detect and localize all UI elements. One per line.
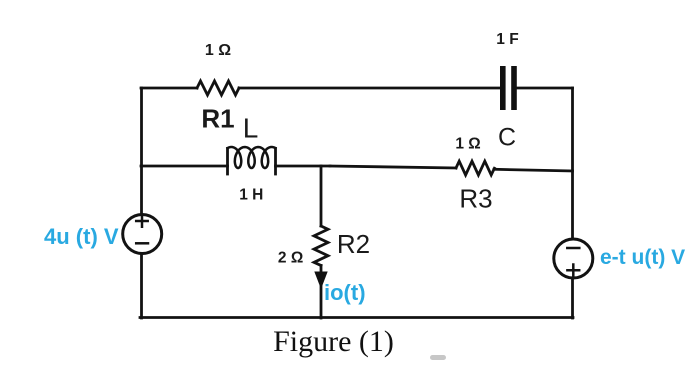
capacitor C1 plates: [500, 66, 517, 110]
svg-text:C: C: [498, 124, 516, 152]
svg-text:1 F: 1 F: [496, 31, 518, 48]
svg-text:io(t): io(t): [324, 280, 366, 305]
resistor R2: [314, 226, 328, 266]
wire middle vertical branch (node to R2): [320, 166, 323, 226]
wire left vertical lower: [140, 254, 143, 319]
svg-text:e-t u(t) V: e-t u(t) V: [600, 246, 685, 269]
wire middle horizontal sloped (branch to R3): [330, 166, 456, 168]
inductor L left tick: [226, 149, 229, 175]
svg-text:1 Ω: 1 Ω: [205, 42, 231, 59]
wire middle vertical lower (R2 to bottom rail): [320, 266, 323, 319]
inductor L right tick: [274, 149, 277, 175]
svg-text:4u (t) V: 4u (t) V: [44, 224, 119, 249]
inductor L coil: [228, 147, 276, 168]
svg-text:1 H: 1 H: [239, 187, 263, 204]
wire bottom rail: [140, 316, 573, 319]
svg-text:1 Ω: 1 Ω: [455, 136, 480, 153]
svg-text:R2: R2: [337, 229, 370, 259]
wire right vertical lower: [571, 278, 574, 318]
svg-text:2 Ω: 2 Ω: [278, 250, 303, 267]
V2 minus sign: [567, 247, 579, 250]
voltage source V1 4u(t): [123, 215, 162, 254]
svg-text:L: L: [243, 113, 259, 144]
wire left vertical upper: [140, 88, 143, 215]
resistor R3: [456, 161, 494, 175]
svg-text:R3: R3: [459, 184, 492, 214]
voltage source V2 e-t u(t): [554, 239, 593, 278]
current arrow io(t): [314, 272, 327, 290]
svg-text:Figure (1): Figure (1): [273, 325, 394, 358]
wire top (R1 to capacitor): [239, 87, 500, 90]
wire top-left horizontal (left corner to R1): [141, 87, 197, 90]
svg-text:R1: R1: [201, 104, 234, 134]
V1 minus sign: [136, 242, 148, 245]
resistor R1: [197, 81, 239, 95]
wire middle horizontal (inductor to branch node): [276, 165, 331, 168]
wire middle horizontal right (R3 to right rail): [494, 169, 573, 171]
wire right vertical upper: [571, 88, 574, 239]
wire middle horizontal left: [141, 165, 228, 168]
wire top-right (capacitor to right corner): [517, 87, 573, 90]
V1 plus sign: [136, 215, 148, 226]
stray gray mark: [430, 355, 446, 360]
V2 plus sign: [567, 265, 579, 277]
